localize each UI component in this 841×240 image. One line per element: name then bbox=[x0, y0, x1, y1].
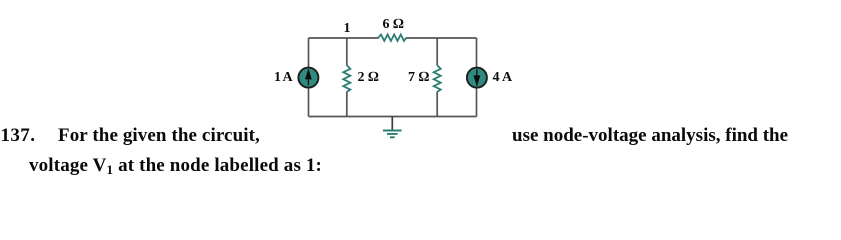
wire: 7-ohm branch lower stub bbox=[436, 92, 438, 117]
resistor R 7-ohm zigzag bbox=[434, 65, 441, 92]
text: use node-voltage analysis, find the bbox=[512, 126, 788, 145]
label 1 A bbox=[274, 68, 292, 87]
ground bbox=[383, 117, 402, 138]
wire: top rail left segment (node to 6-ohm) bbox=[309, 37, 379, 39]
wire: bottom rail bbox=[309, 116, 477, 118]
text: For the given the circuit, bbox=[58, 126, 260, 145]
resistor R 2-ohm zigzag bbox=[343, 65, 350, 92]
wire: 7-ohm branch upper stub bbox=[436, 38, 438, 65]
label 7 ohm bbox=[408, 68, 429, 87]
wire: 2-ohm branch lower stub bbox=[346, 92, 348, 117]
resistor R 6-ohm zigzag bbox=[378, 35, 406, 41]
wire: 2-ohm branch upper stub bbox=[346, 38, 348, 65]
label 6 ohm bbox=[383, 15, 404, 34]
wire: left branch lower segment bbox=[308, 88, 310, 117]
current source I2 4A (arrow down) bbox=[467, 68, 487, 88]
wire: left branch upper segment bbox=[308, 38, 310, 67]
node 1 label bbox=[344, 19, 351, 38]
label 2 ohm bbox=[358, 68, 379, 87]
label 4 A bbox=[493, 68, 513, 87]
current source I1 1A (arrow up) bbox=[298, 68, 318, 88]
wire: top rail right segment (6-ohm to right corner) bbox=[406, 37, 477, 39]
wire: right branch upper segment bbox=[476, 38, 478, 67]
text line 2: voltage V1 at the node labelled as 1: bbox=[29, 156, 322, 175]
wire: right branch lower segment bbox=[476, 88, 478, 117]
problem number 137. bbox=[1, 126, 36, 145]
